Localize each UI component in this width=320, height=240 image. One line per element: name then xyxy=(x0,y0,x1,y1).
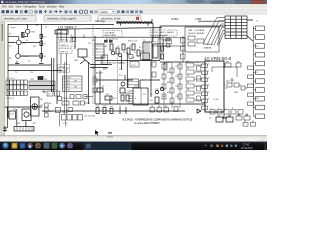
svg-text:4: 4 xyxy=(208,85,209,87)
svg-text:R8: R8 xyxy=(105,46,107,48)
svg-text:1: 1 xyxy=(208,64,209,66)
svg-text:on some ADJUSTMENT: on some ADJUSTMENT xyxy=(134,122,160,125)
svg-text:ADJUST: ADJUST xyxy=(96,72,104,75)
svg-text:С8 +10: С8 +10 xyxy=(62,112,68,114)
svg-text:R6: R6 xyxy=(123,52,125,54)
svg-text:+REF 1.2: +REF 1.2 xyxy=(60,45,69,47)
svg-text:1 2 3 4: 1 2 3 4 xyxy=(62,123,68,125)
svg-text:-BALANCE: -BALANCE xyxy=(203,43,214,46)
svg-text:3: 3 xyxy=(208,78,209,80)
svg-text:Power: Power xyxy=(11,27,16,29)
svg-text:Q9: Q9 xyxy=(186,61,188,63)
svg-text:R53: R53 xyxy=(110,107,113,109)
svg-text:C3: C3 xyxy=(9,46,11,48)
svg-text:R23: R23 xyxy=(49,111,52,113)
svg-text:И3: И3 xyxy=(165,106,167,108)
svg-text:C22: C22 xyxy=(40,105,43,107)
svg-text:D8: D8 xyxy=(163,96,165,98)
svg-text:+5 [dc]: +5 [dc] xyxy=(56,32,63,34)
svg-text:5: 5 xyxy=(208,92,209,94)
svg-text:C92: C92 xyxy=(186,75,189,77)
svg-text:VOLTAGE: VOLTAGE xyxy=(105,32,116,35)
svg-text:4.7: 4.7 xyxy=(93,68,96,70)
svg-text:R31: R31 xyxy=(167,62,170,64)
svg-text:-C.062: -C.062 xyxy=(213,99,219,101)
svg-text:J10: J10 xyxy=(256,98,259,100)
svg-text:2W: 2W xyxy=(74,87,77,89)
svg-text:R32: R32 xyxy=(93,84,96,86)
svg-text:C81: C81 xyxy=(217,116,220,118)
svg-text:6: 6 xyxy=(208,99,209,101)
svg-text:L5: L5 xyxy=(119,106,121,108)
svg-text:3П ЖЗ И: 3П ЖЗ И xyxy=(62,98,70,100)
svg-text:2k2: 2k2 xyxy=(33,46,36,48)
svg-text:1k: 1k xyxy=(26,40,28,42)
svg-text:-GAMMA: -GAMMA xyxy=(203,47,212,50)
svg-text:b: b xyxy=(218,108,219,110)
svg-text:C26: C26 xyxy=(17,123,20,125)
svg-text:C5: C5 xyxy=(117,46,119,48)
svg-text:D5: D5 xyxy=(196,62,198,64)
svg-text:.OUTPUT: .OUTPUT xyxy=(59,71,68,73)
svg-text:C945TM: C945TM xyxy=(22,56,29,58)
svg-text:C52: C52 xyxy=(103,106,106,108)
svg-text:IC2: IC2 xyxy=(143,94,146,96)
svg-text:c: c xyxy=(225,108,226,110)
svg-text:T9: T9 xyxy=(15,72,17,74)
svg-text:-E 12.0: -E 12.0 xyxy=(64,87,70,89)
svg-text:R45 0.1 D2: R45 0.1 D2 xyxy=(128,41,138,43)
svg-text:R9: R9 xyxy=(9,58,11,60)
svg-text:R71: R71 xyxy=(106,94,109,96)
svg-text:D3: D3 xyxy=(121,86,123,88)
svg-text:R91: R91 xyxy=(186,68,189,70)
svg-text:R84: R84 xyxy=(245,115,248,117)
svg-text:R1: R1 xyxy=(44,37,46,39)
svg-text:C44: C44 xyxy=(161,44,164,46)
svg-text:MT2: MT2 xyxy=(226,81,230,83)
svg-text:CN3: CN3 xyxy=(30,79,34,81)
svg-text:C36: C36 xyxy=(175,86,178,88)
svg-text:R2: R2 xyxy=(44,44,46,46)
svg-text:C38: C38 xyxy=(175,96,178,98)
svg-text:HCBO: HCBO xyxy=(171,17,179,21)
svg-text:R83: R83 xyxy=(237,115,240,117)
svg-text:R7: R7 xyxy=(9,34,11,36)
svg-text:2: 2 xyxy=(208,71,209,73)
svg-text:C61 C62 R63: C61 C62 R63 xyxy=(84,116,95,118)
svg-text:C9: C9 xyxy=(209,118,211,120)
svg-text:8: 8 xyxy=(135,98,136,100)
svg-text:J1: J1 xyxy=(256,21,258,23)
svg-text:R33: R33 xyxy=(167,72,170,74)
svg-text:+D 18.3: +D 18.3 xyxy=(64,84,71,86)
svg-text:half Page: half Page xyxy=(95,20,106,23)
svg-text:REGULATE: REGULATE xyxy=(105,34,117,37)
svg-text:CN2: CN2 xyxy=(10,114,14,116)
svg-text:C31: C31 xyxy=(93,76,96,78)
svg-text:D4-11: D4-11 xyxy=(134,86,140,88)
svg-text:И1: И1 xyxy=(151,106,153,108)
svg-text:4.7k: 4.7k xyxy=(92,40,96,42)
svg-text:sabotshka_v03db.djvu - STDU Vi: sabotshka_v03db.djvu - STDU Viewer xyxy=(5,1,46,4)
svg-text:C21: C21 xyxy=(88,43,91,45)
svg-text:13.8: 13.8 xyxy=(119,63,123,65)
svg-text:IC 7805 C14: IC 7805 C14 xyxy=(58,40,68,42)
svg-text:d: d xyxy=(232,108,233,110)
svg-text:.INPUT: .INPUT xyxy=(59,66,66,68)
svg-text:11: 11 xyxy=(71,35,73,37)
svg-text:C7: C7 xyxy=(134,52,136,54)
svg-text:R27: R27 xyxy=(33,123,36,125)
svg-text:R93: R93 xyxy=(186,82,189,84)
svg-text:ИЗ: ИЗ xyxy=(226,62,228,64)
svg-text:T10: T10 xyxy=(44,79,47,81)
svg-text:C945: C945 xyxy=(31,32,35,34)
svg-text:C34: C34 xyxy=(175,76,178,78)
svg-text:25.09.2015: 25.09.2015 xyxy=(241,148,253,150)
svg-text:+B 135V: +B 135V xyxy=(64,78,72,80)
svg-text:17:42: 17:42 xyxy=(243,144,250,147)
svg-text:4.7k: 4.7k xyxy=(119,69,122,71)
svg-text:1.2k: 1.2k xyxy=(119,75,122,77)
svg-text:U3 SMR-7: U3 SMR-7 xyxy=(58,25,77,30)
svg-text:L2: L2 xyxy=(45,27,47,29)
svg-text:R77: R77 xyxy=(150,100,153,102)
svg-text:R95: R95 xyxy=(186,96,189,98)
svg-text:100%: 100% xyxy=(101,10,109,14)
svg-text:J7: J7 xyxy=(256,72,258,74)
svg-text:+F 9.15: +F 9.15 xyxy=(64,90,70,92)
svg-text:a: a xyxy=(211,108,212,110)
svg-text:Q7: Q7 xyxy=(102,86,104,88)
svg-text:+C 42.5: +C 42.5 xyxy=(64,81,71,83)
svg-text:C55: C55 xyxy=(30,72,33,74)
svg-text:B+ SCREEN ADJ: B+ SCREEN ADJ xyxy=(151,34,168,37)
svg-text:1 2 3 4 5 6: 1 2 3 4 5 6 xyxy=(6,98,15,100)
svg-text:FOCUS - ADJ + BALNT: FOCUS - ADJ + BALNT xyxy=(151,31,175,34)
svg-text:.1: .1 xyxy=(109,63,111,65)
svg-text:C48: C48 xyxy=(141,51,144,53)
svg-text:1.31: 1.31 xyxy=(131,57,135,59)
svg-text:C51: C51 xyxy=(96,106,99,108)
svg-text:R35: R35 xyxy=(167,82,170,84)
svg-text:GND: GND xyxy=(74,60,79,62)
svg-text:C32: C32 xyxy=(175,66,178,68)
svg-text:T2: T2 xyxy=(154,42,156,44)
svg-text:C94: C94 xyxy=(186,89,189,91)
svg-text:Q4: Q4 xyxy=(111,51,113,53)
svg-text:1 2 3 4 5 6: 1 2 3 4 5 6 xyxy=(6,78,15,80)
svg-text:И2: И2 xyxy=(158,106,160,108)
svg-text:AM/7: AM/7 xyxy=(103,68,107,71)
svg-text:sabotshka_v01_data: sabotshka_v01_data xyxy=(4,18,28,21)
svg-text:R74: R74 xyxy=(125,93,128,95)
svg-text:File Edit View Navigatio: File Edit View Navigation Tools Window H… xyxy=(2,4,65,8)
svg-text:C72: C72 xyxy=(113,98,116,100)
svg-text:R5: R5 xyxy=(139,47,141,49)
svg-text:D1: D1 xyxy=(129,46,131,48)
svg-text:SELECT ARRAY: SELECT ARRAY xyxy=(188,32,205,35)
svg-text:D6: D6 xyxy=(49,103,51,105)
svg-text:473B: 473B xyxy=(195,17,201,21)
svg-text:C82: C82 xyxy=(227,116,230,118)
svg-text:+1.25: +1.25 xyxy=(131,65,136,67)
svg-text:DAY - VOLTAGE: DAY - VOLTAGE xyxy=(188,29,205,32)
svg-text:1.7: 1.7 xyxy=(83,35,86,37)
svg-text:J4: J4 xyxy=(256,46,258,48)
svg-text:C78: C78 xyxy=(155,89,158,91)
svg-text:R3: R3 xyxy=(44,56,46,58)
svg-text:+41: +41 xyxy=(150,94,153,96)
svg-text:0.01 4.7k C12: 0.01 4.7k C12 xyxy=(106,38,118,40)
svg-text:R44: R44 xyxy=(161,52,164,54)
svg-text:C33: C33 xyxy=(93,92,96,94)
svg-text:C945: C945 xyxy=(22,43,26,45)
svg-text:0.1: 0.1 xyxy=(28,61,31,63)
svg-text:1A VRN-50-8: 1A VRN-50-8 xyxy=(204,56,232,61)
svg-text:1W: 1W xyxy=(74,81,77,83)
svg-text:-REF 3.4: -REF 3.4 xyxy=(60,51,69,53)
svg-text:L4: L4 xyxy=(17,107,19,109)
svg-text:R21: R21 xyxy=(40,99,43,101)
svg-text:R37: R37 xyxy=(167,92,170,94)
svg-text:sabotshka_v03db_page01: sabotshka_v03db_page01 xyxy=(47,18,77,21)
